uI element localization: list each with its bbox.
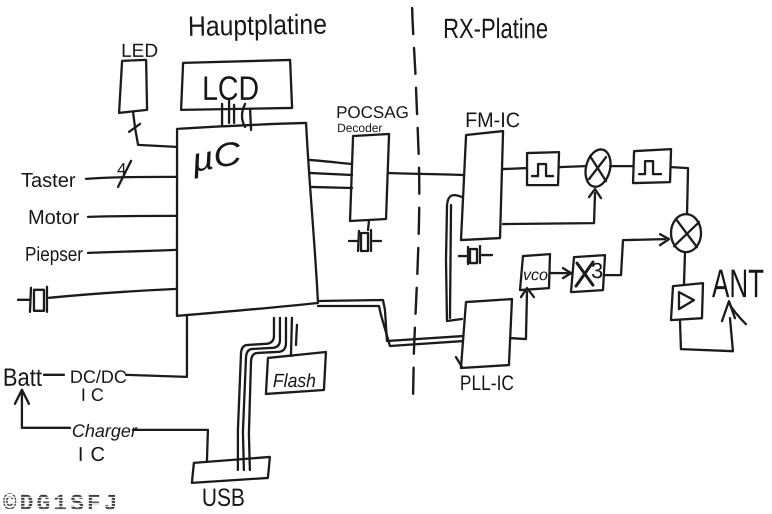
wire F2 to mixer M2: [671, 167, 688, 214]
LCD label: [202, 70, 259, 108]
LCD block: [181, 60, 292, 110]
svg-text:Piepser: Piepser: [25, 244, 83, 266]
Piepser label: [25, 244, 83, 266]
Flash block: [266, 352, 326, 394]
title RX-Platine: [443, 13, 548, 44]
X3 multiplier block: [571, 255, 605, 292]
arrow Charger to Batt: [15, 390, 29, 428]
svg-text:©DG1SFJ: ©DG1SFJ: [3, 491, 121, 514]
Taster label: [21, 170, 76, 192]
wire amplifier to antenna: [680, 318, 733, 351]
svg-text:Decoder: Decoder: [337, 121, 382, 135]
svg-text:IC: IC: [78, 444, 112, 466]
svg-text:Batt: Batt: [3, 364, 42, 392]
LED block: [119, 60, 147, 113]
filter F1 (IF filter block): [527, 152, 559, 185]
wire FM-IC to filter F1: [503, 168, 527, 169]
µC block: [177, 123, 318, 316]
PLL-IC label: [460, 372, 514, 395]
arrow VCO to X3: [550, 268, 571, 278]
watermark ©DG1SFJ: [3, 491, 121, 514]
svg-text:LED: LED: [121, 41, 158, 62]
svg-text:ANT: ANT: [712, 262, 764, 306]
wire Taster to µC: [86, 177, 177, 179]
PLL-IC block: [456, 299, 512, 368]
bus µC to POCSAG (3 lines): [308, 160, 352, 188]
wire F1 to mixer M1: [559, 166, 585, 167]
wire crystal X1 to µC: [49, 289, 177, 298]
svg-text:Charger: Charger: [72, 421, 138, 441]
svg-text:4: 4: [117, 160, 126, 179]
svg-text:Hauptplatine: Hauptplatine: [188, 9, 328, 42]
wire FM-IC LO to mixer M1 (arrow): [503, 189, 601, 224]
svg-text:vco: vco: [523, 267, 548, 284]
svg-text:LCD: LCD: [202, 70, 259, 108]
wire X3 to mixer M2 (arrow): [605, 234, 669, 275]
crystal X1: [18, 287, 47, 312]
VCO block: [520, 254, 550, 290]
svg-text:FM-IC: FM-IC: [465, 109, 520, 132]
wire Motor to µC: [88, 216, 177, 217]
wire LED to µC: [129, 112, 176, 147]
wire Piepser to µC: [88, 250, 177, 253]
wire Charger to USB: [22, 428, 208, 462]
svg-text:USB: USB: [202, 484, 245, 512]
USB label: [202, 484, 245, 512]
svg-text:µC: µC: [187, 134, 245, 180]
FM-IC label: [465, 109, 520, 132]
ANT label: [712, 262, 764, 306]
mixer M2: [671, 214, 701, 252]
bus LCD to µC (4 lines): [222, 101, 251, 130]
board divider dashed line: [412, 8, 419, 404]
bus µC to USB (3 lines): [238, 318, 286, 470]
POCSAG decoder block: [350, 134, 389, 221]
LED label: [121, 41, 158, 62]
wire µC to Flash: [291, 318, 297, 356]
svg-text:Flash: Flash: [273, 371, 316, 392]
FM-IC block: [461, 131, 503, 240]
DC/DC IC label: [70, 367, 127, 405]
filter F2 (IF filter block): [633, 149, 671, 183]
Flash label: [273, 371, 316, 392]
Motor label: [28, 207, 79, 229]
svg-text:RX-Platine: RX-Platine: [443, 13, 548, 44]
µC label: [187, 133, 245, 179]
Charger IC label: [72, 421, 138, 466]
wire M2 to amplifier: [684, 252, 685, 284]
title Hauptplatine: [188, 8, 328, 41]
wire Batt to DC/DC: [44, 374, 64, 376]
crystal X2: [349, 220, 381, 251]
wire DC/DC to µC: [126, 316, 187, 377]
Batt label: [3, 364, 42, 392]
svg-text:POCSAG: POCSAG: [336, 103, 409, 122]
antenna ANT: [722, 301, 746, 324]
crystal X3q (FM-IC crystal): [459, 246, 492, 264]
amplifier A1: [671, 283, 703, 320]
VCO label: [523, 267, 548, 284]
bus width marker 4: [117, 160, 131, 187]
wire M1 to filter F2: [610, 165, 633, 167]
svg-text:Motor: Motor: [28, 207, 79, 229]
svg-text:3: 3: [591, 258, 603, 283]
svg-text:Taster: Taster: [21, 170, 76, 192]
wire POCSAG to FM-IC: [388, 173, 463, 175]
POCSAG label: [336, 103, 409, 135]
svg-text:IC: IC: [81, 385, 109, 405]
wire FM-IC to PLL-IC (hairpin): [446, 195, 462, 321]
arrow PLL-IC to VCO: [510, 288, 534, 339]
USB connector: [192, 457, 270, 483]
wire µC to PLL-IC (double stroke): [318, 300, 463, 346]
svg-text:PLL-IC: PLL-IC: [460, 372, 514, 395]
mixer M1: [582, 147, 615, 190]
